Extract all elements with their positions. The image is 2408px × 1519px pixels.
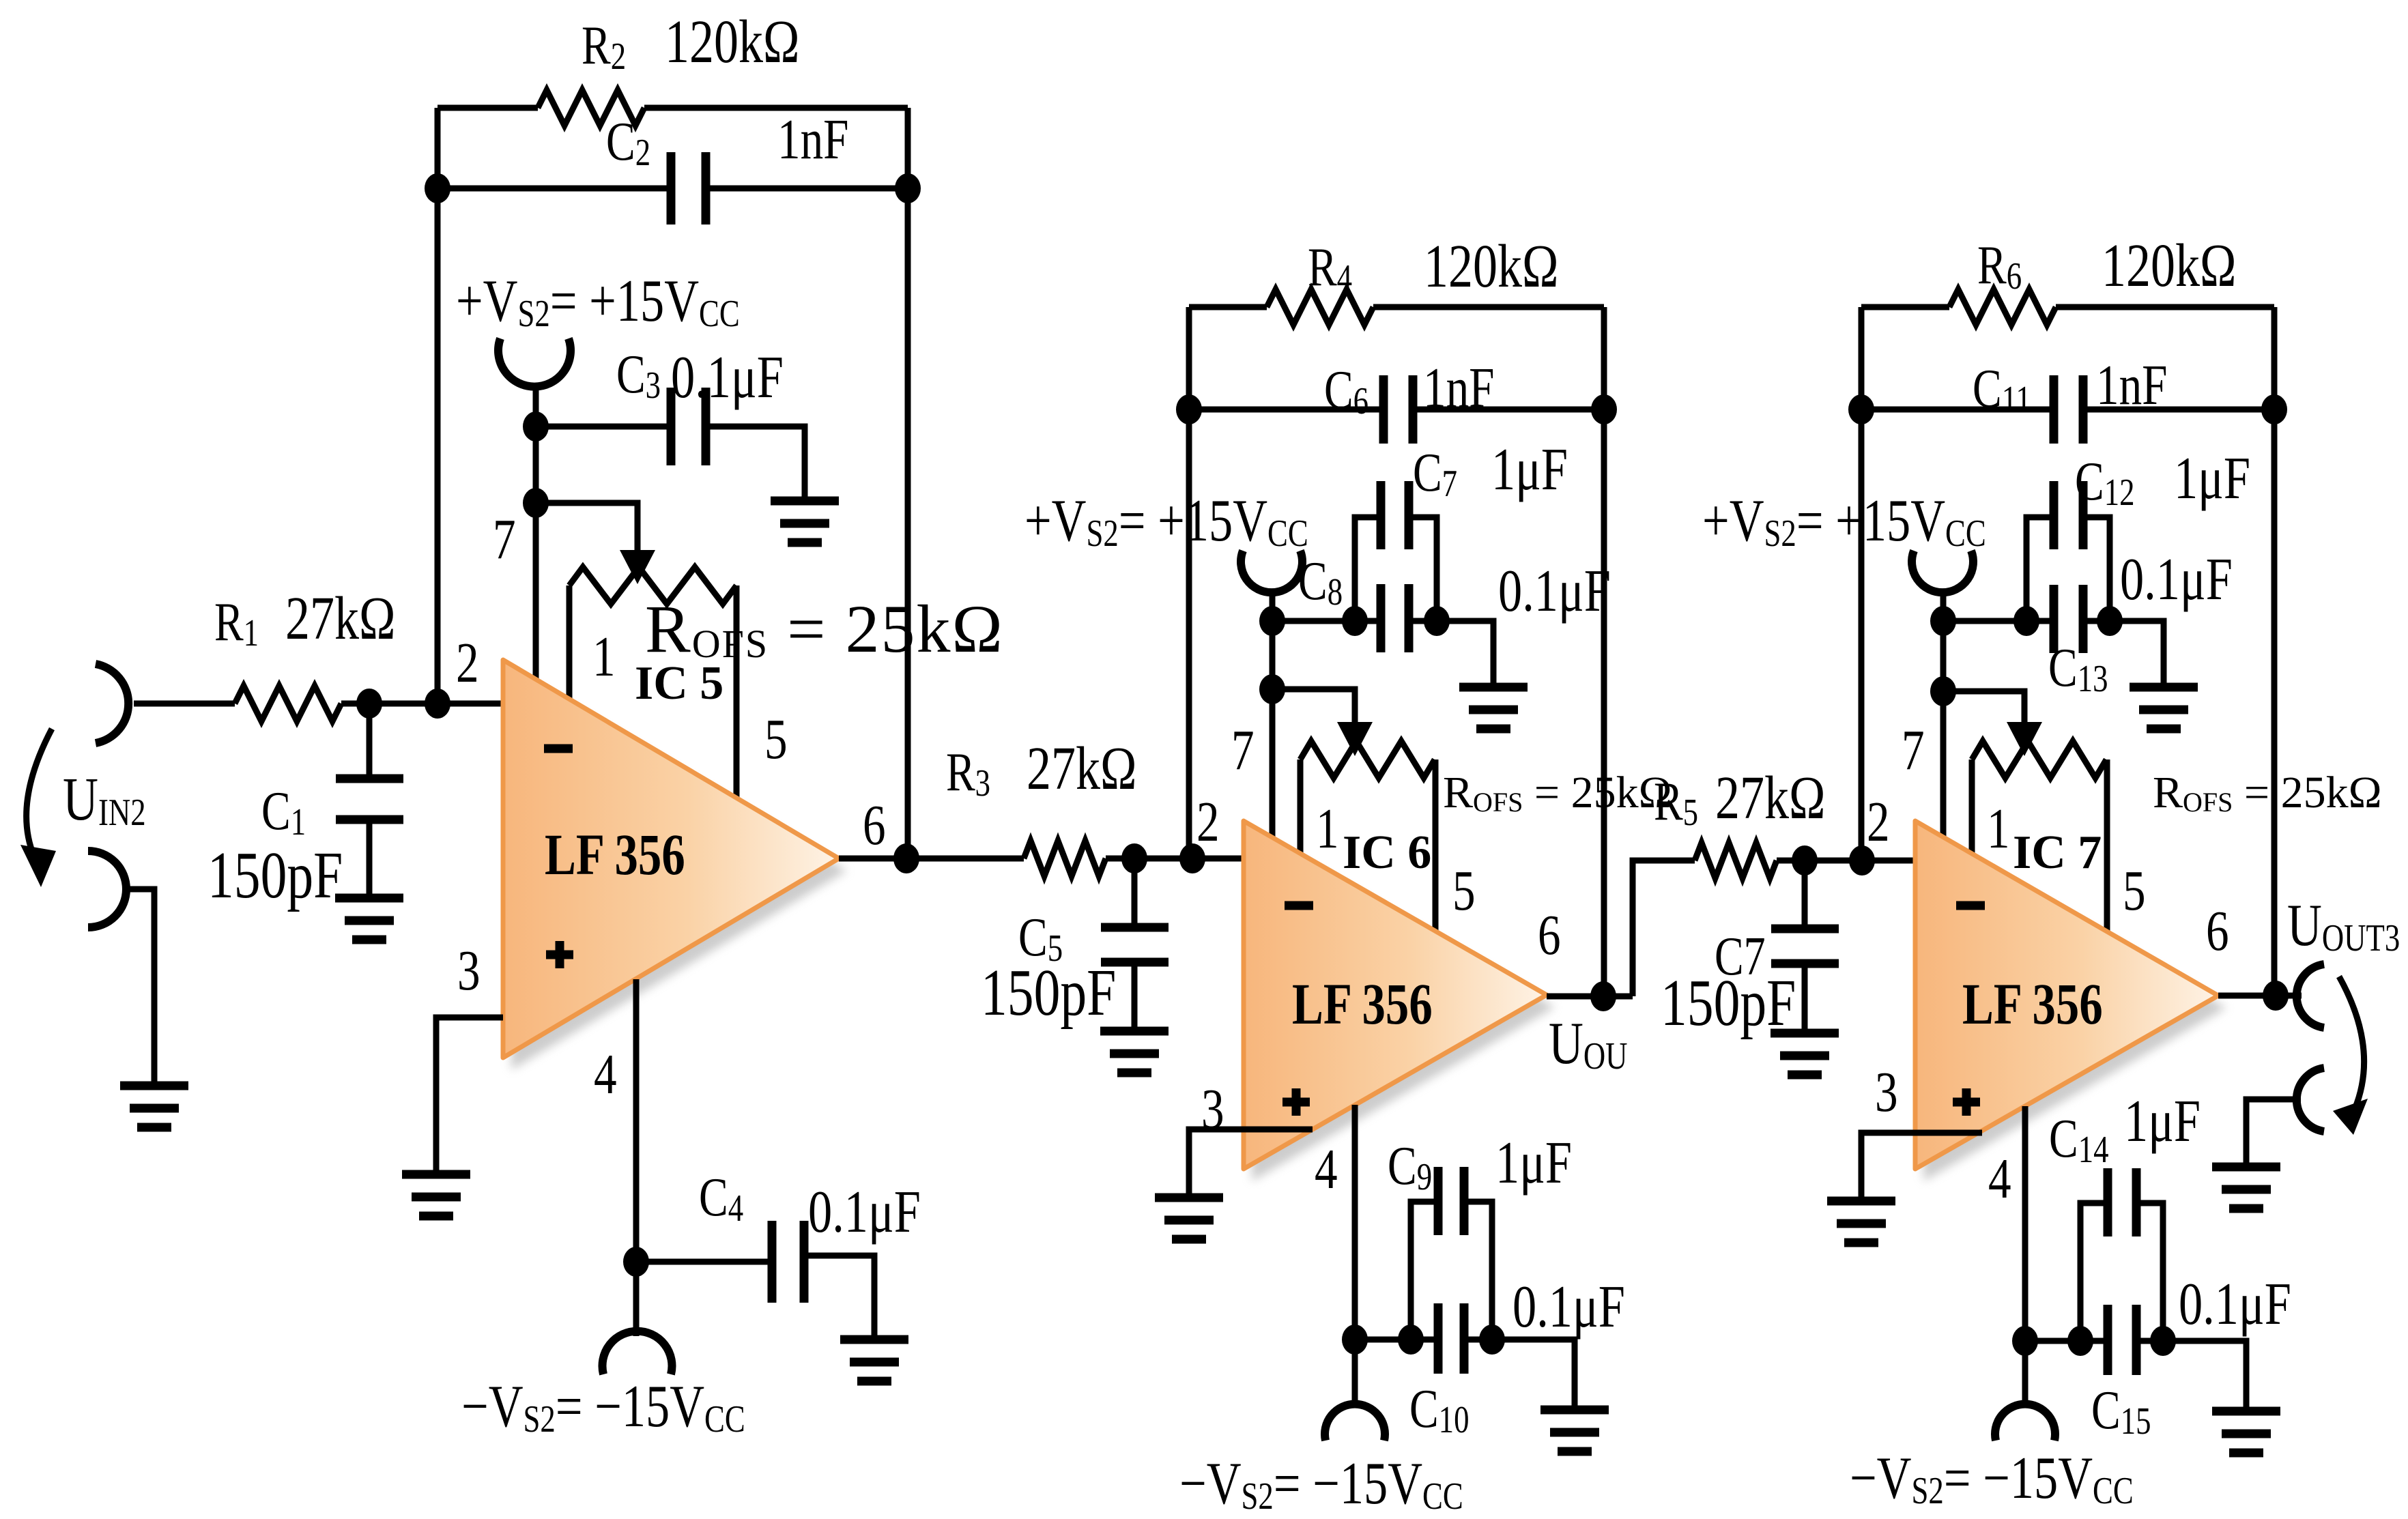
node dot C6 right: [1591, 394, 1617, 424]
node dot C9 left leg: [1398, 1325, 1424, 1355]
svg-text:1nF: 1nF: [1423, 356, 1495, 420]
pin 7 vertical wire stage3: [1940, 621, 1947, 837]
C2 wire left: [438, 186, 671, 192]
ground below C13: [2130, 687, 2198, 729]
capacitor C13 plates: [2054, 585, 2083, 653]
svg-text:1μF: 1μF: [1491, 437, 1568, 503]
svg-text:1μF: 1μF: [1495, 1130, 1572, 1196]
svg-text:IC 7: IC 7: [2013, 826, 2102, 879]
feedback top wire left of R4: [1189, 304, 1267, 310]
node dot C2 left: [425, 173, 450, 203]
resistor R1 zigzag: [235, 686, 341, 721]
feedback top wire right of R2: [644, 105, 908, 111]
source UOUT3 lower terminal arc: [2297, 1068, 2324, 1131]
node dot C12 right leg: [2097, 606, 2123, 636]
svg-text:27kΩ: 27kΩ: [1715, 763, 1825, 831]
feedback top wire right of R4: [1373, 304, 1604, 310]
wire C4 to ground corner: [804, 1256, 874, 1340]
source UOUT3 upper terminal arc: [2297, 964, 2324, 1028]
op-amp IC5 triangle: [503, 660, 839, 1058]
resistor R3 zigzag: [1024, 841, 1106, 876]
C14 left leg wire: [2080, 1203, 2108, 1341]
-VS2 supply dome terminal stage1: [603, 1331, 672, 1374]
feedback top wire left of R6: [1861, 304, 1949, 310]
svg-text:0.1μF: 0.1μF: [2120, 547, 2233, 613]
output wire IC7 pin6: [2218, 993, 2302, 999]
resistor R5 zigzag: [1695, 843, 1777, 878]
wire riser to R5: [1633, 860, 1695, 996]
node dot output IC6: [1590, 981, 1616, 1011]
wire C1 stem: [367, 704, 373, 779]
svg-text:LF 356: LF 356: [1292, 972, 1433, 1037]
wire C1 to ground: [367, 820, 373, 898]
pot wiper arrow head stage2: [1337, 722, 1373, 756]
capacitor C7 1uF plates: [1381, 481, 1409, 549]
node dot C14 right leg: [2150, 1326, 2176, 1356]
output wire IC6 pin6: [1547, 994, 1633, 1000]
wire pot left to pin1: [567, 585, 573, 700]
potentiometer ROFS stage2 zigzag: [1300, 741, 1435, 778]
op-amp IC6 triangle: [1244, 821, 1547, 1169]
capacitor C5 plates: [1101, 927, 1169, 962]
svg-text:5: 5: [764, 708, 788, 771]
feedback right vertical wire stage3: [2271, 307, 2278, 996]
svg-text:2: 2: [456, 631, 479, 695]
feedback left vertical wire stage2: [1186, 307, 1192, 858]
wire supply stem stage1: [533, 385, 539, 426]
svg-text:4: 4: [594, 1043, 617, 1106]
svg-text:0.1μF: 0.1μF: [1513, 1274, 1625, 1340]
ground pin3 IC6: [1155, 1198, 1223, 1239]
svg-text:+VS2= +15VCC: +VS2= +15VCC: [1702, 488, 1986, 554]
svg-text:3: 3: [1875, 1060, 1898, 1124]
capacitor C6 plates: [1384, 375, 1413, 444]
minus sign IC5: [544, 744, 573, 753]
svg-text:7: 7: [1902, 719, 1925, 782]
capacitor C3 plates: [671, 388, 706, 465]
C12 right leg wire: [2083, 517, 2110, 621]
wire pot right to pin5 IC7: [2104, 759, 2110, 931]
+VS2 supply cup terminal stage2: [1241, 551, 1302, 592]
resistor R2 zigzag: [538, 90, 644, 126]
svg-text:2: 2: [1867, 790, 1890, 854]
svg-text:−VS2= −15VCC: −VS2= −15VCC: [1850, 1445, 2134, 1511]
op-amp IC7 triangle shadow: [1923, 833, 2226, 1181]
output wire IC5 pin6: [839, 856, 1024, 862]
node dot C7 left leg: [1342, 606, 1368, 636]
curved arrow UOUT3: [2333, 976, 2368, 1135]
wire R3 to IC6 pin2: [1106, 856, 1244, 862]
node dot supply stage3: [1930, 606, 1956, 636]
wire pin4 to C4: [636, 1259, 772, 1265]
ground pin3 IC5: [402, 1174, 470, 1216]
svg-text:1: 1: [592, 625, 616, 689]
svg-text:6: 6: [2206, 899, 2229, 963]
node dot supply stage1: [523, 411, 549, 442]
-VS2 supply dome terminal stage2: [1325, 1404, 1385, 1441]
wire -VS2 stem stage1: [633, 1262, 640, 1336]
-VS2 supply dome terminal stage3: [1995, 1404, 2055, 1441]
svg-text:27kΩ: 27kΩ: [285, 583, 395, 652]
wire input to R1: [134, 701, 235, 707]
C11 wire right: [2083, 407, 2274, 413]
svg-text:1μF: 1μF: [2174, 446, 2250, 512]
op-amp IC6 triangle shadow: [1252, 833, 1555, 1181]
wire pot right to pin5 IC6: [1433, 759, 1439, 931]
op-amp IC5 triangle shadow: [511, 672, 847, 1070]
wire C5 to ground: [1132, 962, 1138, 1031]
feedback right vertical wire stage2: [1601, 307, 1607, 996]
C2 wire right: [706, 186, 908, 192]
node dot supply stage2: [1259, 606, 1285, 636]
svg-text:−VS2= −15VCC: −VS2= −15VCC: [461, 1374, 745, 1440]
svg-text:7: 7: [1231, 719, 1255, 782]
C9 left leg wire: [1411, 1202, 1438, 1340]
wire supply stem stage3: [1940, 590, 1947, 621]
wire supply row to C13: [1943, 618, 2054, 624]
capacitor C15 plates: [2108, 1305, 2136, 1375]
capacitor C12 1uF plates: [2054, 481, 2083, 549]
minus sign IC6: [1285, 901, 1313, 910]
capacitor C4 plates: [772, 1221, 804, 1303]
resistor R4 zigzag: [1267, 289, 1373, 325]
node dot pin4 stage3: [2012, 1326, 2038, 1356]
wire C10 to ground corner: [1464, 1340, 1575, 1410]
pin 7 vertical wire stage2: [1270, 621, 1276, 837]
svg-text:IC 5: IC 5: [635, 657, 723, 710]
ground below UOUT3: [2212, 1167, 2280, 1209]
resistor R6 zigzag: [1949, 289, 2056, 325]
minus sign IC7: [1956, 901, 1985, 910]
ground below C4: [840, 1340, 908, 1381]
wire to pot wiper stage2: [1272, 689, 1355, 722]
node dot C11 left: [1848, 394, 1874, 424]
capacitor C8 plates: [1381, 584, 1409, 652]
wire pot right to pin5: [734, 585, 740, 798]
plus sign IC6: [1282, 1088, 1310, 1116]
capacitor C10 plates: [1438, 1303, 1464, 1374]
pin 3 wire IC6: [1189, 1129, 1313, 1198]
svg-text:+VS2= +15VCC: +VS2= +15VCC: [456, 268, 740, 334]
wire supply stem stage2: [1270, 590, 1276, 621]
wire supply to C3: [536, 424, 671, 430]
node dot C7 right leg: [1424, 606, 1450, 636]
ground below UIN2: [120, 1086, 188, 1127]
wire pin4 row to C10: [1355, 1337, 1438, 1343]
wire pot left to pin1 IC7: [1969, 759, 1975, 854]
plus sign IC7: [1953, 1088, 1980, 1116]
node dot C7cap tap: [1792, 845, 1818, 876]
svg-text:6: 6: [1538, 903, 1561, 967]
potentiometer ROFS stage1 zigzag: [569, 567, 736, 604]
svg-text:6: 6: [863, 794, 886, 857]
C14 right leg wire: [2136, 1203, 2163, 1341]
wire -VS2 stem stage3: [2022, 1341, 2029, 1407]
curved arrow UIN2: [20, 729, 56, 887]
feedback left vertical wire stage3: [1859, 307, 1865, 860]
C7 right leg wire: [1409, 517, 1437, 621]
node dot pin7/pot stage2: [1259, 674, 1285, 704]
svg-text:1: 1: [1316, 797, 1339, 860]
wire to pot wiper stage3: [1943, 691, 2024, 722]
svg-text:IC 6: IC 6: [1343, 826, 1431, 879]
node dot pin7/pot stage3: [1930, 676, 1956, 706]
wire lower terminal to ground stage3 out: [2246, 1099, 2301, 1167]
ground below C3: [771, 501, 839, 542]
capacitor C11 plates: [2054, 375, 2083, 444]
node dot C6 left: [1176, 394, 1202, 424]
C9 right leg wire: [1464, 1202, 1492, 1340]
svg-text:120kΩ: 120kΩ: [665, 7, 799, 75]
node dot C9 right leg: [1479, 1325, 1505, 1355]
svg-text:LF 356: LF 356: [545, 822, 685, 887]
svg-text:+VS2= +15VCC: +VS2= +15VCC: [1024, 488, 1308, 554]
pot wiper arrow head stage1: [620, 550, 655, 584]
node dot pin2 IC6: [1179, 843, 1205, 873]
svg-text:4: 4: [1315, 1138, 1338, 1201]
wire to pot wiper stage1: [536, 503, 637, 550]
svg-text:120kΩ: 120kΩ: [1424, 231, 1558, 300]
pin 7 vertical wire stage1: [533, 426, 539, 680]
feedback right vertical wire stage1: [905, 108, 911, 858]
capacitor C9 1uF plates: [1438, 1167, 1464, 1235]
op-amp IC7 triangle: [1915, 821, 2218, 1169]
node dot at feedback tap pin2: [425, 689, 450, 719]
node dot at C1 tap: [356, 689, 382, 719]
plus sign IC5: [546, 941, 573, 968]
wire pot left to pin1 IC6: [1298, 759, 1304, 854]
svg-text:1nF: 1nF: [777, 108, 849, 171]
source UIN2 lower terminal arc: [88, 851, 126, 927]
svg-text:150pF: 150pF: [207, 839, 343, 912]
wire C13 to ground corner: [2083, 621, 2164, 687]
node dot C14 left leg: [2067, 1326, 2093, 1356]
wire C7cap to ground: [1802, 964, 1808, 1033]
node dot C2 right: [895, 173, 921, 203]
feedback left vertical wire stage1: [435, 108, 441, 704]
feedback top wire right of R6: [2056, 304, 2274, 310]
node dot pin7/pot stage1: [523, 488, 549, 518]
svg-text:7: 7: [493, 508, 516, 571]
wire C7cap stem: [1802, 860, 1808, 929]
svg-text:1: 1: [1987, 797, 2010, 860]
svg-text:0.1μF: 0.1μF: [2179, 1271, 2291, 1337]
svg-text:0.1μF: 0.1μF: [1498, 558, 1611, 624]
node dot output IC7: [2263, 981, 2289, 1011]
ground below C5: [1100, 1031, 1169, 1073]
capacitor C7 150pF plates: [1771, 929, 1839, 964]
capacitor C14 1uF plates: [2108, 1168, 2136, 1236]
svg-text:2: 2: [1196, 790, 1220, 854]
wire C5 stem: [1132, 858, 1138, 927]
svg-text:120kΩ: 120kΩ: [2102, 231, 2236, 299]
pin 4 wire IC6: [1352, 1105, 1358, 1340]
pin 3 wire IC7: [1861, 1133, 1982, 1201]
+VS2 supply cup terminal stage1: [498, 338, 571, 387]
wire lower terminal to ground: [126, 889, 154, 1086]
ground pin3 IC7: [1827, 1201, 1895, 1243]
svg-text:0.1μF: 0.1μF: [671, 345, 784, 411]
ground below C10: [1540, 1410, 1609, 1451]
svg-text:5: 5: [2123, 859, 2146, 923]
C6 wire left: [1189, 407, 1384, 413]
node dot output IC5 feedback tap: [893, 843, 919, 873]
svg-text:0.1μF: 0.1μF: [808, 1179, 921, 1245]
capacitor C1 plates: [336, 779, 403, 820]
svg-text:5: 5: [1452, 859, 1476, 923]
node dot C5 tap: [1121, 843, 1147, 873]
svg-text:27kΩ: 27kΩ: [1027, 734, 1136, 802]
svg-text:−VS2= −15VCC: −VS2= −15VCC: [1179, 1451, 1463, 1517]
C6 wire right: [1413, 407, 1604, 413]
wire C3 to ground corner: [706, 426, 805, 501]
source UIN2 upper terminal arc: [96, 664, 128, 743]
feedback top wire left of R2: [438, 105, 538, 111]
C12 left leg wire: [2026, 517, 2054, 621]
wire -VS2 stem stage2: [1352, 1340, 1358, 1407]
svg-text:1nF: 1nF: [2096, 353, 2168, 417]
node dot pin2 IC7: [1849, 845, 1875, 876]
ground below C1: [335, 898, 403, 940]
ground below C8: [1459, 687, 1528, 729]
wire supply row to C8: [1272, 618, 1381, 624]
node dot pin4 stage2: [1342, 1325, 1368, 1355]
wire R5 to IC7 pin2: [1777, 858, 1915, 864]
node dot C12 left leg: [2013, 606, 2039, 636]
svg-text:1μF: 1μF: [2124, 1088, 2201, 1155]
ground below C15: [2212, 1411, 2280, 1453]
svg-text:3: 3: [457, 939, 481, 1002]
svg-text:LF 356: LF 356: [1962, 972, 2103, 1037]
C11 wire left: [1861, 407, 2054, 413]
wire R1 to IC5 pin 2: [341, 701, 503, 707]
C7 left leg wire: [1355, 517, 1381, 621]
node dot pin4 stage1: [623, 1247, 649, 1277]
capacitor C2 plates: [671, 152, 706, 225]
wire C8 to ground corner: [1409, 621, 1493, 687]
wire pin4 row to C15: [2025, 1338, 2108, 1344]
potentiometer ROFS stage3 zigzag: [1972, 741, 2106, 778]
pin 3 wire IC5: [436, 1017, 503, 1174]
ground below C7cap: [1771, 1033, 1839, 1075]
pin 4 wire IC7: [2022, 1106, 2029, 1341]
pot wiper arrow head stage3: [2007, 722, 2042, 756]
wire C15 to ground corner: [2136, 1341, 2246, 1411]
+VS2 supply cup terminal stage3: [1912, 551, 1973, 592]
node dot C11 right: [2261, 394, 2287, 424]
svg-text:150pF: 150pF: [981, 956, 1116, 1029]
pin 4 wire IC5: [633, 979, 640, 1262]
svg-text:150pF: 150pF: [1661, 966, 1796, 1039]
svg-text:4: 4: [1988, 1147, 2011, 1211]
